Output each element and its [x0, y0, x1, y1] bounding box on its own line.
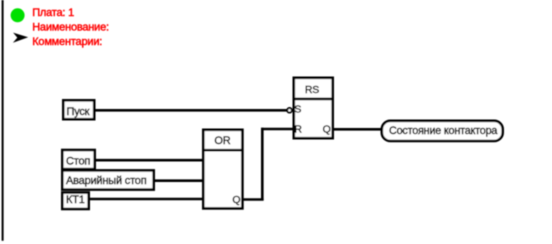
svg-text:S: S: [294, 104, 301, 116]
wire OR Q to riser: [243, 198, 264, 201]
wire riser to R: [261, 128, 294, 131]
OR block U1: [203, 130, 242, 209]
status LED (green): [11, 8, 25, 22]
output node Состояние контактора: [382, 121, 503, 141]
riser wire up to R: [261, 128, 264, 201]
svg-text:Стоп: Стоп: [66, 156, 90, 168]
svg-text:Наименование:: Наименование:: [32, 22, 109, 34]
svg-text:RS: RS: [305, 84, 319, 96]
wire RS Q to output: [333, 128, 382, 131]
input box Стоп: [62, 150, 94, 169]
svg-text:Аварийный стоп: Аварийный стоп: [66, 175, 147, 187]
wire Аварийный стоп to OR input 2: [153, 179, 204, 182]
wire КТ1 to OR input 3: [88, 198, 204, 201]
RS block U2: [294, 78, 333, 138]
svg-text:Q: Q: [232, 194, 240, 206]
input box КТ1: [62, 193, 88, 210]
svg-text:Q: Q: [323, 124, 331, 136]
inversion bubble on S input: [287, 108, 292, 113]
cursor arrow: [13, 33, 28, 43]
left border: [2, 0, 4, 241]
svg-text:КТ1: КТ1: [66, 194, 85, 206]
svg-text:Состояние контактора: Состояние контактора: [389, 125, 497, 137]
svg-text:Пуск: Пуск: [67, 106, 90, 118]
wire Стоп to OR input 1: [95, 159, 205, 162]
svg-text:OR: OR: [214, 135, 230, 147]
svg-text:R: R: [294, 123, 302, 135]
wire Пуск to S bubble: [94, 109, 288, 112]
svg-text:Комментарии:: Комментарии:: [32, 36, 102, 48]
input box Аварийный стоп: [62, 170, 153, 189]
svg-text:Плата: 1: Плата: 1: [32, 7, 74, 19]
input box Пуск: [63, 100, 94, 119]
